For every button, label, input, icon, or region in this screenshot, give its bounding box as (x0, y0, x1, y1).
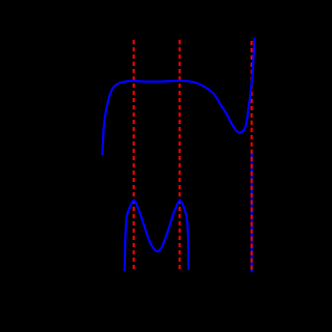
red dashed vertical line 2 at x=179.6 (179, 40, 181, 270)
red dashed vertical line 1 at x=133.7 (133, 40, 135, 270)
blue vertical root-marker line at x=251.7 (251, 152, 253, 272)
blue function curve (top branch) (103, 39, 255, 155)
blue lower curve (M-shaped branch) (125, 201, 189, 271)
red dashed vertical line 3 at x=251.6 (251, 41, 253, 270)
